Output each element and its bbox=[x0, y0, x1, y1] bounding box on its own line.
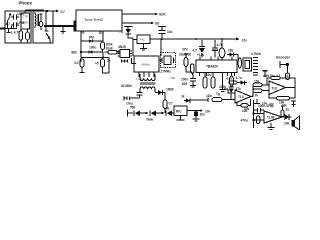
svg-text:4N35: 4N35 bbox=[118, 45, 126, 49]
svg-text:10k: 10k bbox=[254, 80, 260, 84]
speaker LS2 bbox=[292, 116, 300, 130]
svg-text:4.7: 4.7 bbox=[286, 74, 291, 78]
diode D12 horizontal bbox=[181, 95, 208, 103]
capacitor C12 electrolytic bbox=[229, 73, 242, 88]
capacitor C8 electrolytic 10uF bbox=[179, 53, 192, 73]
resistor R5 bbox=[191, 64, 195, 75]
microphone MK1 bbox=[280, 61, 289, 80]
svg-text:R/C: R/C bbox=[176, 110, 182, 114]
wire lower-left bus bbox=[5, 21, 17, 29]
node chain1 bbox=[145, 112, 147, 114]
diode D1 bbox=[81, 36, 103, 43]
diode D2 bbox=[81, 46, 103, 54]
IC U3 opto bbox=[107, 45, 132, 63]
svg-text:1k: 1k bbox=[107, 59, 111, 63]
capacitor C13 bbox=[137, 93, 143, 99]
svg-text:1k: 1k bbox=[181, 95, 185, 99]
svg-text:Tg: Tg bbox=[216, 92, 220, 96]
svg-text:42 MHz: 42 MHz bbox=[121, 84, 132, 88]
svg-text:CTR: CTR bbox=[23, 15, 29, 19]
diode D4 bbox=[227, 49, 238, 60]
resistor R19 bbox=[226, 77, 241, 85]
capacitor C19 bbox=[254, 99, 268, 106]
node Dout bbox=[80, 51, 82, 53]
phone sub-box left bbox=[5, 11, 31, 43]
diode D11 bbox=[282, 114, 292, 126]
svg-text:10k: 10k bbox=[228, 49, 234, 53]
diode marks below opto bbox=[121, 60, 128, 63]
feedback loop U8A bbox=[264, 74, 295, 98]
top edge thick segment bbox=[25, 9, 44, 11]
resistor R3 1k bbox=[95, 58, 109, 74]
svg-text:12v: 12v bbox=[242, 39, 248, 43]
phone sub-box right bbox=[33, 11, 53, 43]
svg-text:10n: 10n bbox=[200, 113, 206, 117]
IF transformer T2 bbox=[121, 74, 156, 92]
wire 12V rail bbox=[150, 37, 247, 42]
op-amp U8B bbox=[219, 85, 253, 103]
IC U7 regulator bbox=[174, 106, 187, 116]
diode D10 bbox=[241, 80, 248, 85]
resistor R4 horizontal bbox=[105, 51, 121, 55]
svg-text:Vdd: Vdd bbox=[170, 76, 175, 80]
svg-text:3.3: 3.3 bbox=[74, 61, 79, 65]
speaker LS1 grille bbox=[238, 52, 261, 75]
connector bar bbox=[74, 21, 77, 32]
ground PIC bbox=[140, 44, 147, 51]
svg-text:4.7kHz: 4.7kHz bbox=[251, 52, 262, 56]
svg-text:SD: SD bbox=[155, 22, 160, 26]
transistor Q1 bbox=[45, 11, 51, 43]
svg-text:+12v: +12v bbox=[197, 53, 204, 57]
svg-text:TL0: TL0 bbox=[272, 87, 278, 91]
wire DV down bbox=[102, 31, 104, 42]
wire rail to 8042 bbox=[160, 39, 162, 56]
svg-text:50k: 50k bbox=[130, 106, 136, 110]
svg-text:EF86: EF86 bbox=[22, 21, 29, 25]
diode D3 bbox=[119, 29, 133, 38]
svg-text:SCK: SCK bbox=[159, 13, 166, 17]
wire 3V tap bbox=[53, 10, 56, 12]
svg-text:4.7u: 4.7u bbox=[236, 76, 242, 80]
svg-text:100k: 100k bbox=[219, 85, 226, 89]
svg-text:10k: 10k bbox=[242, 109, 248, 113]
svg-text:Dis 4.7: Dis 4.7 bbox=[270, 74, 281, 78]
node phone line bbox=[46, 25, 48, 27]
capacitor C1 bbox=[11, 12, 24, 20]
diode D8 bbox=[146, 111, 162, 122]
resistor R11 bbox=[253, 80, 269, 87]
resistor R16 bbox=[281, 106, 289, 117]
diode D5 bbox=[229, 87, 242, 100]
capacitor C4 round bbox=[39, 14, 43, 30]
wire audio rail bbox=[241, 100, 255, 128]
svg-text:10u: 10u bbox=[206, 73, 212, 77]
svg-text:TL0: TL0 bbox=[238, 95, 244, 99]
line terminal wire bbox=[0, 28, 5, 30]
pins 8042 bottom bbox=[136, 72, 154, 81]
IC U6 TBA820 bbox=[196, 60, 237, 73]
capacitor C9 polarized bbox=[193, 40, 206, 58]
svg-text:Phone: Phone bbox=[19, 1, 33, 6]
svg-text:4.7: 4.7 bbox=[193, 49, 198, 53]
wire rail drop bbox=[221, 39, 223, 60]
capacitor C14 bbox=[124, 96, 140, 106]
resistor R18 op2 feedback bbox=[237, 99, 251, 111]
IC U1 speech circuit bbox=[21, 11, 30, 29]
svg-text:4Dk: 4Dk bbox=[71, 51, 77, 55]
svg-text:100u: 100u bbox=[89, 46, 96, 50]
svg-text:PM: PM bbox=[89, 36, 94, 40]
wire PB0 down bbox=[80, 31, 82, 62]
svg-text:TL08: TL08 bbox=[267, 115, 275, 119]
resistor R6 bbox=[217, 43, 225, 58]
svg-text:3V: 3V bbox=[60, 9, 65, 14]
op-amp U8A bbox=[269, 81, 295, 95]
IC U4 PIC bbox=[133, 35, 150, 44]
svg-text:PIC: PIC bbox=[140, 38, 145, 42]
capacitor C17 bbox=[263, 71, 281, 78]
ground bus stub bbox=[7, 29, 11, 33]
op-amp U9 bbox=[254, 111, 283, 123]
svg-text:100n: 100n bbox=[181, 78, 188, 82]
svg-text:10k: 10k bbox=[284, 122, 290, 126]
node phone top bbox=[46, 10, 48, 12]
svg-text:C7: C7 bbox=[169, 102, 173, 106]
ground U7 bbox=[177, 116, 185, 121]
svg-text:4.7k: 4.7k bbox=[252, 94, 258, 98]
svg-text:470u: 470u bbox=[241, 119, 248, 123]
svg-text:1N60: 1N60 bbox=[166, 88, 174, 92]
wire U7 out bbox=[187, 109, 211, 113]
wire row bbox=[81, 52, 109, 59]
svg-text:TC: TC bbox=[119, 30, 124, 34]
pins TBA top bbox=[200, 57, 232, 61]
ground phone line bbox=[61, 27, 66, 33]
svg-text:100n 470p: 100n 470p bbox=[258, 104, 273, 108]
capacitor C10 bbox=[212, 40, 218, 58]
resistor R15 bbox=[256, 116, 260, 124]
svg-text:10u: 10u bbox=[167, 30, 173, 34]
svg-text:820: 820 bbox=[182, 82, 188, 86]
resistor R12 bbox=[252, 89, 269, 98]
capacitor C16 bbox=[282, 101, 296, 108]
svg-text:8.17MHz: 8.17MHz bbox=[158, 70, 171, 74]
wire detector chain bbox=[128, 112, 133, 114]
pins TBA bottom bbox=[200, 73, 235, 77]
svg-text:Tank: Tank bbox=[146, 118, 153, 122]
capacitor C11 to ground bbox=[181, 73, 196, 88]
svg-text:+5: +5 bbox=[95, 62, 99, 66]
svg-text:1Dk: 1Dk bbox=[206, 94, 212, 98]
resistor R13 feedback bottom bbox=[269, 91, 290, 105]
capacitor C2 bbox=[11, 21, 25, 28]
IC U5 8042 bbox=[134, 56, 159, 72]
svg-text:10uF: 10uF bbox=[106, 47, 113, 51]
svg-text:Tone Rmt2: Tone Rmt2 bbox=[84, 17, 104, 22]
varistor RV1 bbox=[6, 13, 12, 26]
resistor R7 bbox=[203, 73, 207, 89]
diode D6 bbox=[155, 88, 174, 101]
transformer T1 bbox=[35, 12, 38, 28]
capacitor C3 vertical bbox=[26, 29, 30, 43]
diode D7 bbox=[130, 106, 146, 117]
resistor R17 bbox=[206, 94, 222, 102]
svg-text:4.7u: 4.7u bbox=[226, 77, 232, 81]
power stub cap C6 bbox=[124, 27, 133, 30]
capacitor C15 to ground bbox=[193, 111, 206, 122]
diode D9 bbox=[164, 107, 174, 117]
svg-text:10k: 10k bbox=[164, 107, 170, 111]
wire SCK out bbox=[122, 13, 166, 17]
resistor R8 bbox=[206, 73, 215, 89]
resistor R2 3.3k bbox=[74, 59, 85, 73]
IC U2 Tone Rmt2 bbox=[76, 10, 122, 31]
wire to 8042 left bbox=[132, 38, 134, 56]
svg-text:TBA820: TBA820 bbox=[206, 65, 218, 69]
wire phone line thick bbox=[44, 25, 74, 27]
ground U9 bbox=[268, 123, 275, 129]
capacitor C18 bbox=[254, 104, 274, 113]
svg-text:37V: 37V bbox=[182, 48, 189, 52]
resistor R4b vertical 100k bbox=[101, 42, 113, 52]
wire opto to 8042 bbox=[132, 58, 137, 64]
svg-text:1u: 1u bbox=[286, 108, 290, 112]
svg-text:Decoder: Decoder bbox=[276, 56, 291, 60]
wire SDA out bbox=[122, 22, 160, 26]
svg-text:8042p: 8042p bbox=[142, 62, 151, 66]
resistor R9 bbox=[163, 100, 173, 113]
resistor R1 vertical bbox=[19, 29, 23, 43]
ground TBA bbox=[216, 73, 226, 97]
node chain2 bbox=[161, 112, 163, 114]
capacitor C7 bbox=[158, 27, 173, 40]
crystal X1 bbox=[158, 53, 176, 81]
svg-text:10v: 10v bbox=[205, 110, 211, 114]
